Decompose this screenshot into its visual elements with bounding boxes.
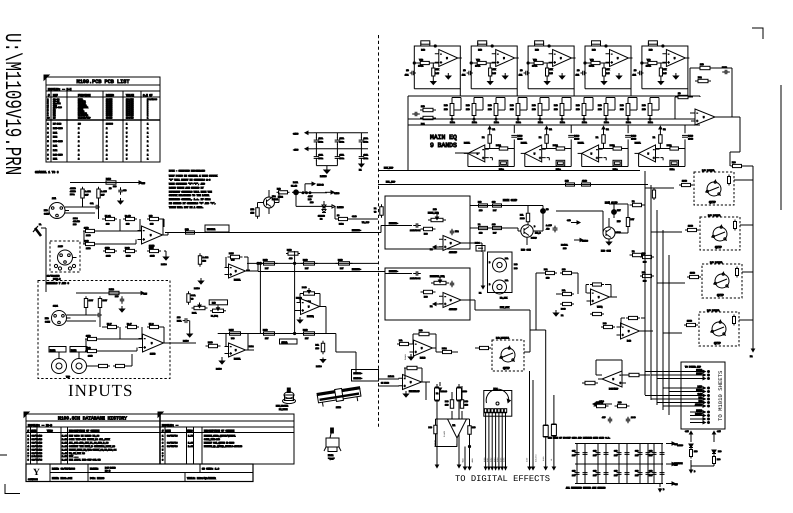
resistor R31 into master xyxy=(335,206,378,225)
EQ band buffer 3 apex drop wire xyxy=(581,153,583,166)
svg-text:100n: 100n xyxy=(340,157,345,160)
svg-text:WITH SUFFIXES "B"-"F", AND: WITH SUFFIXES "B"-"F", AND xyxy=(169,183,205,186)
aux jack wires xyxy=(475,347,479,349)
svg-text:MAINF: MAINF xyxy=(696,372,703,375)
op-amp U5 aux stage xyxy=(297,299,324,319)
svg-text:7B7Q: 7B7Q xyxy=(597,306,603,309)
EQ band 4 input resistor xyxy=(589,59,603,68)
U3 ground xyxy=(194,278,204,290)
designer note text xyxy=(169,170,218,209)
transistor Q1 clip detector xyxy=(264,195,279,208)
svg-text:1MB1L: 1MB1L xyxy=(282,341,289,344)
arrow LED+B xyxy=(305,182,324,193)
svg-text:R5: R5 xyxy=(53,116,56,119)
U3 input resistor vertical xyxy=(198,253,209,267)
op-amp U1A channel 1 preamp xyxy=(138,226,167,248)
U24 feedback resistor xyxy=(621,316,645,331)
svg-text:2: 2 xyxy=(106,131,108,134)
svg-text:C1B: C1B xyxy=(593,470,597,473)
bus resistor RB1 xyxy=(261,259,278,270)
bus resistors on y184 wire xyxy=(563,180,593,187)
right column long vertical wire 5 xyxy=(668,255,670,415)
svg-text:47K: 47K xyxy=(606,68,610,71)
svg-text:10B: 10B xyxy=(150,223,154,226)
svg-text:B11B: B11B xyxy=(208,341,213,344)
mon clip wires xyxy=(556,201,628,233)
svg-text:B: B xyxy=(694,470,696,473)
connector pin 10 xyxy=(690,409,710,413)
svg-text:B4J: B4J xyxy=(435,72,439,75)
toggle switch drawing xyxy=(324,428,341,452)
svg-text:ELECTR/CAP: ELECTR/CAP xyxy=(78,116,91,119)
EQ band buffer 2 inverting pin wire xyxy=(547,157,550,159)
EQ band 3 high-pass stage box xyxy=(527,45,574,96)
svg-text:QTIP: QTIP xyxy=(717,294,724,297)
fader box B1B xyxy=(209,300,227,305)
svg-text:100B: 100B xyxy=(631,416,636,419)
svg-text:R17-R30: R17-R30 xyxy=(53,127,63,130)
svg-text:R13B: R13B xyxy=(338,259,343,262)
svg-text:B1B: B1B xyxy=(514,263,518,266)
aux pair wires down x529-533 xyxy=(526,371,538,470)
U21 output to right xyxy=(461,242,482,244)
svg-text:4B1: 4B1 xyxy=(632,74,636,77)
svg-text:RCA2: RCA2 xyxy=(71,349,77,352)
clip cap C80 xyxy=(475,242,485,252)
stack resistor R8A xyxy=(83,227,97,238)
EQ band buffer 4 apex drop wire xyxy=(638,153,640,166)
svg-text:1LB: 1LB xyxy=(251,212,255,215)
svg-text:TO DIGITAL EFFECTS: TO DIGITAL EFFECTS xyxy=(455,474,550,484)
svg-text:-: - xyxy=(497,52,499,56)
connector pin 4 xyxy=(690,385,710,389)
database history table xyxy=(24,412,294,464)
svg-text:+: + xyxy=(653,156,655,160)
EQ band buffer 1 apex drop wire xyxy=(467,153,469,166)
master level pot upper MAIN_LIQ xyxy=(428,208,446,222)
svg-text:"VOL": "VOL" xyxy=(328,458,335,461)
power indicator +15 arrow right xyxy=(713,430,722,442)
svg-text:B1B5: B1B5 xyxy=(499,458,502,462)
aux series resistor x554 xyxy=(550,395,556,470)
svg-text:LED CON: LED CON xyxy=(601,250,611,253)
U31 top resistor right xyxy=(460,400,468,409)
svg-text:+: + xyxy=(482,156,484,160)
EQ band 4 top resistor xyxy=(592,41,601,52)
svg-text:1: 1 xyxy=(147,149,149,152)
master op-amp U21 xyxy=(439,236,465,255)
svg-text:+: + xyxy=(696,119,698,123)
power cap C91 xyxy=(626,416,637,423)
svg-text:B1: B1 xyxy=(632,200,635,203)
resistor R29 collector xyxy=(277,188,290,199)
svg-text:CHANNEL 1 TO 6: CHANNEL 1 TO 6 xyxy=(35,171,59,174)
svg-text:4MF: 4MF xyxy=(602,416,606,419)
svg-text:100B: 100B xyxy=(688,225,694,228)
svg-text:8: 8 xyxy=(162,459,164,462)
svg-text:B1LB: B1LB xyxy=(420,357,426,360)
EQ fader pot 9 xyxy=(620,98,637,125)
EQ band 1 op-amp ground xyxy=(446,73,451,79)
op-amp U3 mix stage xyxy=(225,264,250,282)
EQ band 5 shunt ground xyxy=(658,79,663,85)
svg-text:B1LBP: B1LBP xyxy=(677,444,684,447)
svg-text:12Bn: 12Bn xyxy=(538,121,544,124)
svg-text:5: 5 xyxy=(126,149,128,152)
svg-text:P1B: P1B xyxy=(642,104,646,107)
svg-text:B17: B17 xyxy=(305,267,309,270)
rail resistor R1A xyxy=(106,178,116,191)
svg-text:P1B: P1B xyxy=(554,104,558,107)
U5 wires xyxy=(295,294,326,334)
svg-text:B1A7L: B1A7L xyxy=(234,358,241,361)
RCA jack L channel 8 xyxy=(49,347,67,374)
U1A output to bus xyxy=(163,234,168,236)
bottom-left corner mark xyxy=(5,484,20,494)
bus resistor RB2 xyxy=(301,259,318,270)
svg-text:-: - xyxy=(539,147,541,151)
main clip resistor RA xyxy=(478,201,488,213)
output jack J11 dashed enclosure xyxy=(700,217,740,250)
power indicator +15 arrow left xyxy=(685,430,693,442)
wire EQ bus to U20 xyxy=(699,96,701,97)
bias resistor R3A xyxy=(97,187,108,200)
svg-text:R31: R31 xyxy=(53,131,58,134)
monitor level pot MONITOR_LIQ xyxy=(430,275,449,285)
EQ band 5 input cap xyxy=(632,69,643,77)
svg-text:MODULES: -- N-N: MODULES: -- N-N xyxy=(48,88,72,91)
svg-text:2: 2 xyxy=(106,127,108,130)
svg-text:B1BF: B1BF xyxy=(526,458,529,462)
svg-text:2A61: 2A61 xyxy=(53,305,59,308)
svg-text:B00: B00 xyxy=(424,233,428,236)
svg-text:VALUE: VALUE xyxy=(126,94,134,97)
EQ summing bus lower xyxy=(408,124,700,126)
svg-text:/BB: /BB xyxy=(546,228,550,231)
svg-text:10B: 10B xyxy=(576,108,580,111)
monitor supply cap cluster xyxy=(535,224,558,235)
decoupling cap C21 xyxy=(314,137,324,145)
EQ band buffer 3 bottom resistor box xyxy=(613,160,622,171)
long wire y170 to right column xyxy=(378,170,640,172)
effects level pot PL1 box xyxy=(484,387,512,416)
svg-text:+: + xyxy=(619,381,621,385)
resistor left of master block xyxy=(374,204,383,218)
svg-text:S.N OF: S.N OF xyxy=(143,94,153,97)
output jack J12 pin resistor xyxy=(736,267,739,278)
mon clip LED CON label and ground xyxy=(601,239,612,253)
aux series resistor x545 xyxy=(542,390,548,470)
RCA jack R channel 8 xyxy=(70,347,87,374)
svg-text:B17: B17 xyxy=(265,267,269,270)
+1LO arrow xyxy=(593,400,612,406)
J3 output wires xyxy=(67,314,97,316)
svg-text:B1A7L: B1A7L xyxy=(464,142,471,145)
svg-text:10B: 10B xyxy=(488,108,492,111)
svg-text:10B: 10B xyxy=(598,108,602,111)
svg-text:+: + xyxy=(230,273,232,277)
svg-text:1.60: 1.60 xyxy=(62,459,68,462)
svg-text:10B: 10B xyxy=(554,108,558,111)
fader box channel 1 xyxy=(205,225,229,232)
svg-text:1LB: 1LB xyxy=(694,450,698,453)
svg-text:L15B0: L15B0 xyxy=(316,365,323,368)
svg-text:+: + xyxy=(444,245,446,249)
svg-text:EFXBUS-: EFXBUS- xyxy=(354,372,363,375)
svg-text:SB CHEC: 1.8: SB CHEC: 1.8 xyxy=(202,468,220,471)
U23 input resistor A xyxy=(560,289,574,296)
svg-text:MAIN EQ: MAIN EQ xyxy=(430,134,457,141)
svg-text:LAP BARREL: LAP BARREL xyxy=(710,261,723,264)
svg-text:10B: 10B xyxy=(445,404,449,407)
svg-text:B1B2: B1B2 xyxy=(249,345,254,348)
svg-text:+: + xyxy=(440,60,442,64)
J1 output wires xyxy=(65,206,95,208)
svg-text:B4J: B4J xyxy=(549,72,553,75)
EQ band 2 wires xyxy=(471,63,496,67)
svg-text:B0B1: B0B1 xyxy=(667,144,673,147)
aux jack J20 dashed enclosure xyxy=(492,340,524,371)
wire bus lower to divider xyxy=(335,334,337,353)
EQ band buffer 1 op-amp xyxy=(464,145,489,162)
clip cluster wires xyxy=(258,190,325,214)
EQ band buffer 1 bottom resistor box xyxy=(499,160,508,171)
svg-text:1B: 1B xyxy=(463,69,466,72)
EQ band 5 wires xyxy=(642,63,667,67)
svg-text:B7L: B7L xyxy=(562,289,566,292)
svg-text:R11B: R11B xyxy=(263,259,268,262)
svg-text:B1: B1 xyxy=(596,136,599,139)
svg-text:C1B: C1B xyxy=(593,450,597,453)
svg-text:B1A7L: B1A7L xyxy=(635,142,642,145)
clip transistor Q5 xyxy=(521,225,538,240)
svg-text:PRINTF_QL_QUTQB_APRIL3-APPLDB: PRINTF_QL_QUTQB_APRIL3-APPLDB xyxy=(204,445,243,448)
svg-text:-: - xyxy=(592,291,594,295)
EQ band buffer 2 bottom resistor box xyxy=(556,160,565,171)
svg-text:10B: 10B xyxy=(700,63,704,66)
input cap C4A xyxy=(90,202,100,209)
decoupling ground left pair xyxy=(316,166,337,178)
EQ band 3 op-amp ground xyxy=(560,73,565,79)
ch7 stack resistor A xyxy=(85,335,99,341)
svg-text:B1B2: B1B2 xyxy=(489,458,492,462)
bias resistor R2A xyxy=(81,187,92,200)
power grid rail mid xyxy=(575,463,663,465)
svg-text:12Bn: 12Bn xyxy=(450,121,456,124)
svg-text:5: 5 xyxy=(126,127,128,130)
fader pot second xyxy=(210,305,226,317)
svg-text:47K: 47K xyxy=(663,68,667,71)
svg-text:6A07: 6A07 xyxy=(89,299,94,302)
svg-text:10B: 10B xyxy=(565,180,569,183)
main clip wire lower xyxy=(470,227,518,229)
svg-text:B1: B1 xyxy=(750,355,753,358)
svg-text:7B: 7B xyxy=(374,211,377,214)
output jack J10 dashed enclosure xyxy=(694,172,734,205)
svg-text:R7-P16: R7-P16 xyxy=(53,123,62,126)
svg-text:+: + xyxy=(144,346,146,350)
svg-text:03/07/03: 03/07/03 xyxy=(167,445,178,448)
svg-text:TAP: TAP xyxy=(66,376,71,379)
bus resistor RB6 xyxy=(301,329,318,341)
EQ band 1 input resistor xyxy=(418,59,432,68)
svg-text:P1B: P1B xyxy=(510,104,514,107)
EQ band buffer 4 bottom wire xyxy=(639,166,685,168)
svg-text:REF: REF xyxy=(53,94,58,97)
main clip resistor RD xyxy=(492,223,502,235)
svg-text:L15B0: L15B0 xyxy=(582,240,589,243)
svg-text:12Bn: 12Bn xyxy=(494,121,500,124)
svg-text:MAL: MAL xyxy=(505,279,508,282)
lower row ground xyxy=(161,251,169,266)
svg-text:LED+B: LED+B xyxy=(317,183,324,186)
svg-text:B4J: B4J xyxy=(492,72,496,75)
svg-text:LB: LB xyxy=(546,208,549,211)
EQ band buffer 2 gain resistor xyxy=(542,144,571,150)
svg-text:LED CON: LED CON xyxy=(521,249,531,252)
resistor on right vertical RB21 xyxy=(640,271,654,283)
resistor on x294 top xyxy=(286,249,300,261)
svg-text:110B: 110B xyxy=(520,217,525,220)
svg-text:100/2008: 100/2008 xyxy=(147,98,158,101)
svg-text:IN SHARED BY CHANNELS "5" AND: IN SHARED BY CHANNELS "5" AND "6", xyxy=(169,202,216,205)
svg-text:B7L: B7L xyxy=(642,271,646,274)
aux pot P01B xyxy=(296,286,317,303)
svg-text:47K: 47K xyxy=(492,68,496,71)
EQ band 4 op-amp xyxy=(606,50,633,67)
signal arrow MUXBUS into block xyxy=(385,222,421,232)
ch8 mix resistors xyxy=(87,354,132,368)
EQ band 1 input cap xyxy=(405,69,416,77)
power rail -15V arrow xyxy=(293,147,314,151)
svg-text:B0B1: B0B1 xyxy=(496,144,502,147)
svg-text:2: 2 xyxy=(106,149,108,152)
monitor op-amp U22 xyxy=(439,293,465,312)
main clip resistor RC xyxy=(478,223,488,235)
power rail wires xyxy=(314,132,368,134)
svg-text:CONN: CONN xyxy=(44,213,50,216)
svg-text:+: + xyxy=(404,384,406,388)
svg-text:B1B: B1B xyxy=(649,49,653,52)
svg-text:10B: 10B xyxy=(126,223,130,226)
EQ summing bus upper xyxy=(408,95,700,97)
connector pin 9 xyxy=(690,403,710,407)
svg-text:B1B1: B1B1 xyxy=(486,458,489,462)
bias cap C2A xyxy=(113,185,127,204)
svg-text:100K: 100K xyxy=(475,65,481,68)
svg-text:1: 1 xyxy=(147,123,149,126)
U30 feedback resistor xyxy=(404,366,422,382)
EQ band 4 wires xyxy=(585,63,610,67)
power LED left xyxy=(677,444,693,448)
svg-text:+B1B: +B1B xyxy=(471,458,474,463)
svg-text:2: 2 xyxy=(106,145,108,148)
svg-text:4558MP: 4558MP xyxy=(449,251,458,254)
svg-text:L15B0: L15B0 xyxy=(216,368,223,371)
svg-text:1.70: 1.70 xyxy=(188,435,194,438)
svg-text:PL1: PL1 xyxy=(494,387,499,390)
decoupling cap C23 xyxy=(359,137,369,145)
EQ band 5 top resistor xyxy=(648,41,657,52)
ground arrow below U30 xyxy=(436,382,442,395)
EQ fader pot 6 xyxy=(554,98,571,125)
svg-text:-: - xyxy=(444,294,446,298)
svg-text:1B: 1B xyxy=(577,69,580,72)
svg-text:100n: 100n xyxy=(364,141,369,144)
power rail label +15 xyxy=(666,442,678,446)
svg-text:VERS: VERS xyxy=(187,429,193,432)
output jack J11 series resistor xyxy=(685,225,699,232)
svg-text:2: 2 xyxy=(78,149,80,152)
svg-text:L15B0: L15B0 xyxy=(337,206,344,209)
EQ fader pot 10 xyxy=(642,98,659,125)
svg-text:-: - xyxy=(302,301,304,305)
svg-text:B1A7L: B1A7L xyxy=(521,142,528,145)
output jack J10 series resistor xyxy=(679,180,693,187)
EQ band 2 top resistor xyxy=(478,41,487,52)
svg-text:DESCRIPTION OF CHANGE: DESCRIPTION OF CHANGE xyxy=(69,429,100,432)
svg-text:47K: 47K xyxy=(549,68,553,71)
svg-text:B: B xyxy=(489,283,491,286)
svg-text:P1B: P1B xyxy=(466,104,470,107)
svg-text:14LC2: 14LC2 xyxy=(388,375,395,378)
svg-text:MODULES: -- N9-B: MODULES: -- N9-B xyxy=(28,424,53,427)
svg-text:B1L: B1L xyxy=(399,339,403,342)
monitor out op-amp U24 xyxy=(617,323,644,343)
dashed enclosure CHANNELS 7 AND 8 xyxy=(38,281,170,379)
svg-text:B1B: B1B xyxy=(472,426,476,429)
jack feed horizontal 2 xyxy=(651,231,682,233)
svg-text:10B: 10B xyxy=(562,268,566,271)
svg-text:B11: B11 xyxy=(544,268,548,271)
svg-text:5: 5 xyxy=(126,140,128,143)
small resistor on vertical x654 xyxy=(652,188,655,200)
power grid column 5 xyxy=(649,444,665,484)
svg-text:12Bn: 12Bn xyxy=(516,121,522,124)
EQ band 5 shunt resistor xyxy=(659,66,667,79)
svg-text:40B: 40B xyxy=(289,257,293,260)
svg-text:12Bn: 12Bn xyxy=(560,121,566,124)
svg-text:10XB: 10XB xyxy=(150,255,155,258)
svg-text:WR_CLP: WR_CLP xyxy=(362,221,370,224)
svg-text:10B: 10B xyxy=(642,108,646,111)
vertical link x260 xyxy=(259,263,261,333)
svg-text:FUNCTION: FUNCTION xyxy=(78,94,91,97)
svg-text:B7Bn: B7Bn xyxy=(670,168,676,171)
svg-text:12Bn: 12Bn xyxy=(472,121,478,124)
bus resistor RB4 (U4 feedback) xyxy=(227,329,244,341)
svg-text:TITLE: M109/QB/MIXER: TITLE: M109/QB/MIXER xyxy=(187,477,216,480)
svg-text:B1A7Q: B1A7Q xyxy=(307,315,314,318)
svg-text:PARTS: PARTS xyxy=(106,94,114,97)
svg-text:LAP_BARRELL: LAP_BARRELL xyxy=(496,337,510,340)
svg-text:560N5: 560N5 xyxy=(106,116,113,119)
svg-text:B02: B02 xyxy=(698,76,702,79)
svg-text:+1L0: +1L0 xyxy=(599,400,605,403)
svg-text:10000: 10000 xyxy=(106,123,114,126)
EQ band buffer 4 inverting pin wire xyxy=(660,157,663,159)
U3 feedback network xyxy=(226,252,248,271)
EQ band buffer 3 inverting pin wire xyxy=(604,157,607,159)
clip junction dots xyxy=(301,192,327,194)
wire master to aux caps xyxy=(481,243,483,252)
ch7 bias cap xyxy=(115,295,125,312)
svg-text:B00B: B00B xyxy=(561,308,566,311)
svg-text:10B: 10B xyxy=(73,223,77,226)
svg-text:1N5B19: 1N5B19 xyxy=(441,390,447,393)
EQ band 3 input cap xyxy=(519,69,530,77)
svg-text:PCB: M1109: PCB: M1109 xyxy=(90,477,105,480)
